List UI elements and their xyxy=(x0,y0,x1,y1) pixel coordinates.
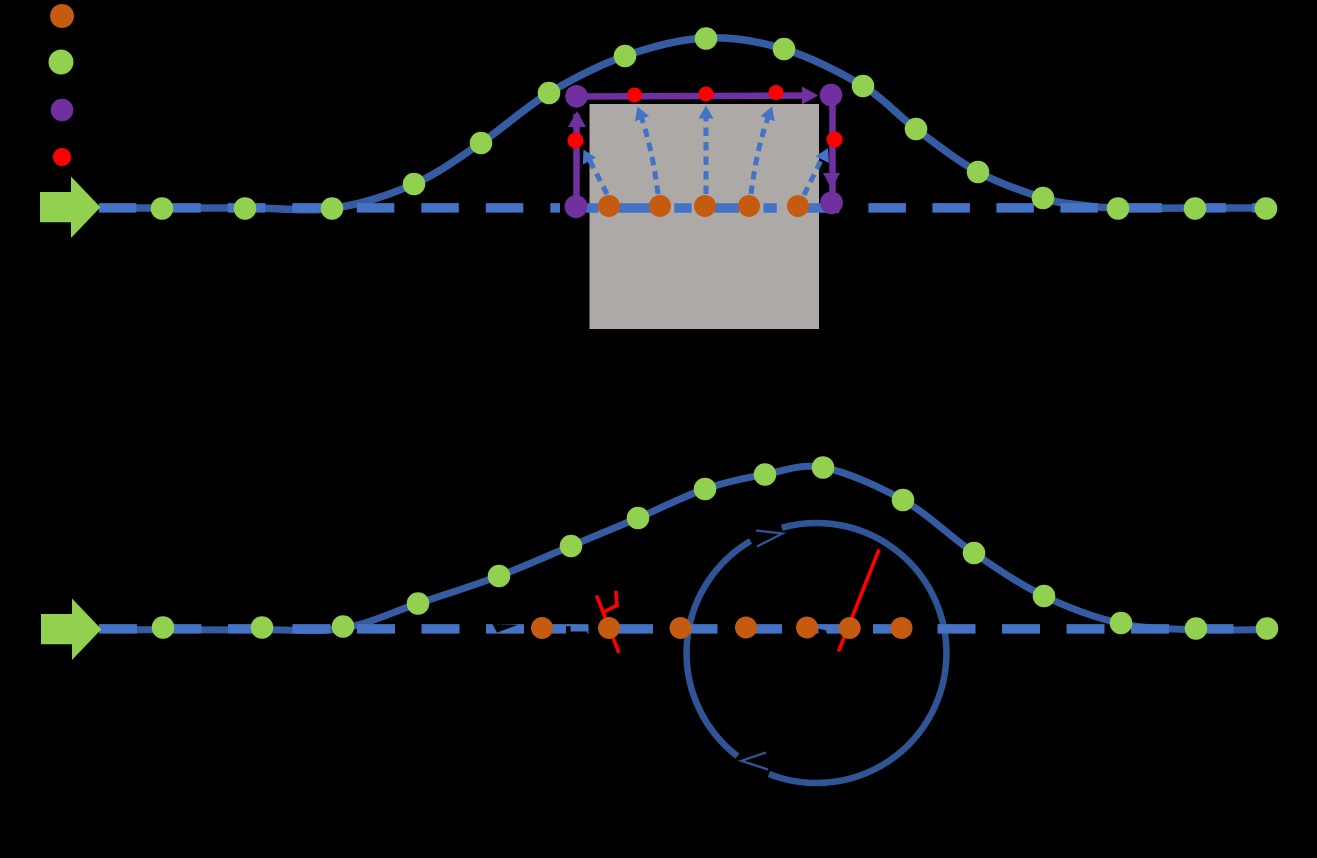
red dot top 1 xyxy=(627,88,642,103)
green surface dot bottom 4 xyxy=(407,592,430,615)
green surface dot bottom 3 xyxy=(332,615,355,638)
purple arrowhead up xyxy=(568,111,586,127)
open arrowhead on circle top (clockwise) xyxy=(756,531,783,547)
green block arrow top (wave direction) xyxy=(40,177,100,239)
green surface dot top 14 xyxy=(1107,197,1130,220)
green surface dot top 7 xyxy=(614,45,637,68)
green surface dot bottom 15 xyxy=(1185,617,1208,640)
green surface dot top 2 xyxy=(234,197,257,220)
green surface dot bottom 2 xyxy=(251,616,274,639)
orange water-particle dot bottom 5 xyxy=(796,617,818,639)
black orbit fragment: open arrowhead over dash xyxy=(493,624,518,633)
green surface dot top 6 xyxy=(538,82,561,105)
extra baseline segments between orange dots (barge region) xyxy=(616,203,653,213)
orange water-particle dot bottom 6 xyxy=(839,617,861,639)
purple dot top-left xyxy=(565,85,588,108)
green surface dot top 16 xyxy=(1255,197,1278,220)
red displacement mark (left) xyxy=(597,596,620,654)
legend dot purple xyxy=(51,99,74,122)
legend dot green xyxy=(49,50,74,75)
green surface dot top 5 xyxy=(470,132,493,155)
green surface dot top 15 xyxy=(1184,197,1207,220)
green surface dot bottom 13 xyxy=(1033,585,1056,608)
dashed arrow from orange dot 1 to left red dot xyxy=(587,155,607,194)
legend dot orange xyxy=(50,4,74,28)
green surface dot bottom 9 xyxy=(754,463,777,486)
top dashed baseline right xyxy=(868,203,1266,213)
dashed arrow from orange dot 5 to right red dot xyxy=(804,154,824,195)
purple dot bottom-left xyxy=(565,195,588,218)
dashed arrow from orange dot 2 to red dot on top line xyxy=(640,112,659,194)
green surface dot top 11 xyxy=(905,118,928,141)
orange water-particle dot top 5 xyxy=(787,195,809,217)
purple arrowhead down xyxy=(823,173,840,189)
green surface dot top 3 xyxy=(321,197,344,220)
purple vertical line left (rise) xyxy=(573,114,580,206)
red dot on left purple line xyxy=(568,133,584,149)
green surface dot top 9 xyxy=(773,38,796,61)
green surface dot bottom 16 xyxy=(1256,617,1279,640)
orange water-particle dot top 2 xyxy=(649,195,671,217)
green surface dot bottom 6 xyxy=(560,535,583,558)
green surface dot bottom 11 xyxy=(892,489,915,512)
black orbit fragment: wedge near dash xyxy=(819,629,828,635)
orange water-particle dot bottom 2 xyxy=(598,617,620,639)
green surface dot top 8 xyxy=(695,27,718,50)
open arrowhead on circle bottom (clockwise) xyxy=(741,753,768,770)
purple vertical line right (fall) xyxy=(829,96,836,202)
red dot top 2 xyxy=(699,87,714,102)
dashed arrow from orange dot 3 straight up to middle red dot xyxy=(704,112,709,194)
green block arrow bottom (wave direction) xyxy=(41,599,101,661)
orange water-particle dot top 1 xyxy=(598,195,620,217)
purple dot bottom-right xyxy=(820,191,843,214)
orange water-particle dot bottom 3 xyxy=(670,617,692,639)
black orbit fragment: dash piece xyxy=(566,626,587,636)
orange water-particle dot top 4 xyxy=(738,195,760,217)
top wave solid curve xyxy=(100,38,1266,210)
orange water-particle dot bottom 7 xyxy=(891,617,913,639)
green surface dot bottom 8 xyxy=(694,478,717,501)
bottom dashed baseline xyxy=(99,624,1267,634)
red radius line in circle xyxy=(839,550,880,652)
bottom wave solid curve xyxy=(100,466,1267,630)
green surface dot top 13 xyxy=(1032,187,1055,210)
purple dot top-right xyxy=(820,84,843,107)
dashed arrow from orange dot 4 to red dot on top line xyxy=(751,112,770,194)
top dashed baseline left xyxy=(99,203,560,213)
green surface dot bottom 12 xyxy=(963,542,986,565)
gray box (barge) xyxy=(590,104,820,329)
purple arrowhead right xyxy=(802,87,818,105)
green surface dot bottom 5 xyxy=(488,565,511,588)
red dot top 3 xyxy=(769,85,784,100)
green surface dot bottom 10 xyxy=(812,456,835,479)
purple horizontal line (crest translation) xyxy=(577,96,813,97)
red dot on right purple line xyxy=(827,132,843,148)
orange water-particle dot bottom 1 xyxy=(531,617,553,639)
green surface dot top 1 xyxy=(151,197,174,220)
orange water-particle dot top 3 xyxy=(694,195,716,217)
orange water-particle dot bottom 4 xyxy=(735,617,757,639)
green surface dot bottom 7 xyxy=(627,507,650,530)
green surface dot bottom 14 xyxy=(1110,612,1133,635)
orbital circle xyxy=(769,523,947,783)
green surface dot top 4 xyxy=(403,173,426,196)
green surface dot top 10 xyxy=(852,75,875,98)
green surface dot top 12 xyxy=(967,161,990,184)
legend dot red xyxy=(53,148,71,166)
green surface dot bottom 1 xyxy=(152,616,175,639)
